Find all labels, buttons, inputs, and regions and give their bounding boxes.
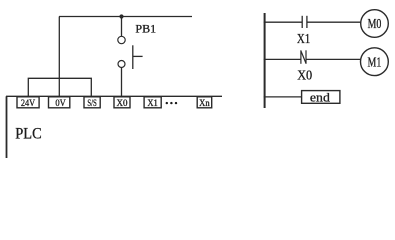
svg-text:24V: 24V bbox=[21, 98, 36, 108]
svg-text:X0: X0 bbox=[297, 67, 312, 82]
svg-text:X0: X0 bbox=[117, 98, 128, 108]
svg-text:PB1: PB1 bbox=[135, 22, 156, 36]
svg-text:X1: X1 bbox=[297, 31, 310, 46]
svg-text:PLC: PLC bbox=[15, 125, 41, 142]
svg-text:M1: M1 bbox=[368, 54, 382, 69]
svg-text:Xn: Xn bbox=[199, 98, 210, 108]
svg-text:S/S: S/S bbox=[87, 98, 96, 108]
svg-text:M0: M0 bbox=[368, 16, 382, 31]
svg-text:X1: X1 bbox=[147, 98, 158, 108]
svg-text:0V: 0V bbox=[55, 98, 66, 108]
svg-text:end: end bbox=[310, 89, 331, 104]
